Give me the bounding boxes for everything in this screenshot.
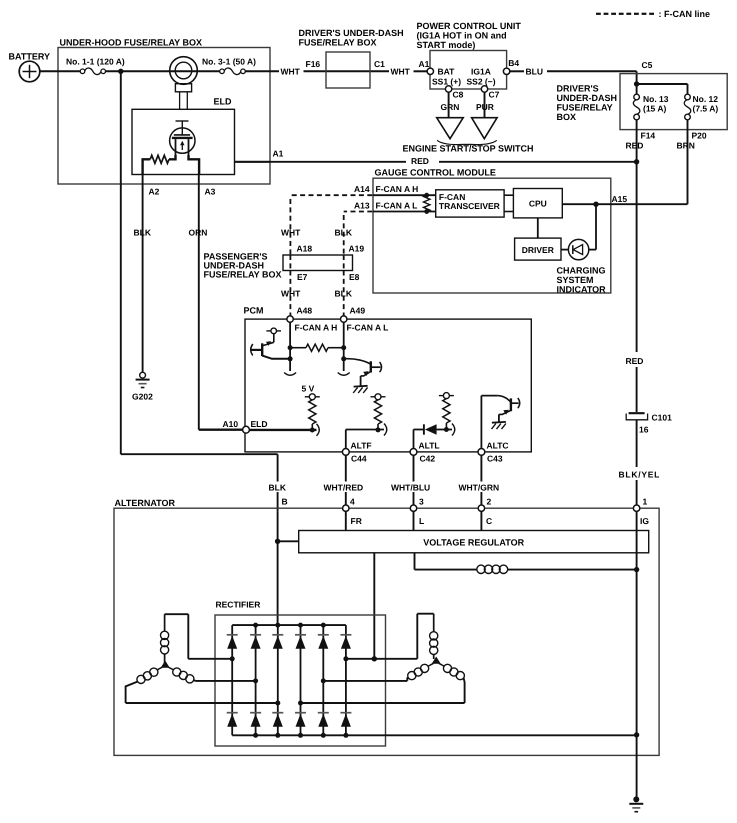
svg-text:BLK: BLK (335, 289, 353, 299)
svg-text:BOX: BOX (557, 112, 577, 122)
svg-text:SS1 (+): SS1 (+) (432, 77, 461, 87)
svg-text:UNDER-DASH: UNDER-DASH (557, 93, 618, 103)
svg-text:RED: RED (411, 156, 429, 166)
svg-text:C101: C101 (652, 413, 673, 423)
svg-text:BATTERY: BATTERY (9, 52, 51, 62)
svg-text:C5: C5 (642, 60, 653, 70)
svg-text:3: 3 (419, 497, 424, 507)
svg-text:16: 16 (639, 425, 649, 435)
svg-text:FUSE/RELAY BOX: FUSE/RELAY BOX (299, 38, 377, 48)
svg-text:SS2 (−): SS2 (−) (467, 77, 496, 87)
svg-text:A2: A2 (149, 187, 160, 197)
svg-text:RECTIFIER: RECTIFIER (216, 600, 261, 610)
svg-text:ALTF: ALTF (351, 441, 372, 451)
svg-text:IG: IG (640, 516, 649, 526)
svg-text:START mode): START mode) (417, 40, 476, 50)
svg-text:1: 1 (643, 497, 648, 507)
svg-text:No. 12: No. 12 (693, 94, 719, 104)
svg-text:DRIVER'S UNDER-DASH: DRIVER'S UNDER-DASH (299, 28, 404, 38)
svg-text:No. 13: No. 13 (643, 94, 669, 104)
svg-text:A3: A3 (205, 187, 216, 197)
svg-text:B: B (282, 497, 288, 507)
svg-text:No. 1-1 (120 A): No. 1-1 (120 A) (66, 57, 125, 67)
svg-text:F14: F14 (641, 131, 656, 141)
svg-text:RED: RED (626, 141, 644, 151)
svg-text:FUSE/RELAY: FUSE/RELAY (557, 103, 613, 113)
svg-text:BAT: BAT (438, 67, 456, 77)
svg-text:WHT: WHT (391, 67, 411, 77)
svg-text:A15: A15 (612, 194, 628, 204)
svg-text:DRIVER: DRIVER (522, 245, 554, 255)
svg-text:F-CAN A H: F-CAN A H (295, 323, 338, 333)
svg-text:A13: A13 (354, 200, 370, 210)
svg-text:A19: A19 (349, 244, 365, 254)
svg-text:E8: E8 (349, 272, 360, 282)
svg-text:BLK: BLK (269, 483, 287, 493)
svg-text:B4: B4 (508, 58, 519, 68)
svg-text:P20: P20 (692, 131, 707, 141)
svg-text:F-CAN A L: F-CAN A L (347, 323, 389, 333)
svg-text:F-CAN A H: F-CAN A H (376, 184, 419, 194)
svg-text:WHT: WHT (281, 67, 301, 77)
svg-text:WHT/GRN: WHT/GRN (459, 483, 500, 493)
svg-text:G202: G202 (132, 392, 153, 402)
svg-text:ELD: ELD (214, 97, 233, 107)
svg-text:BRN: BRN (677, 141, 695, 151)
svg-text:BLK: BLK (335, 228, 353, 238)
svg-text:FR: FR (351, 516, 362, 526)
svg-text:5 V: 5 V (302, 384, 315, 394)
svg-text:A48: A48 (297, 306, 313, 316)
svg-text:POWER CONTROL UNIT: POWER CONTROL UNIT (417, 21, 522, 31)
svg-text:C43: C43 (487, 454, 503, 464)
svg-text:ELD: ELD (251, 419, 268, 429)
svg-text:GAUGE CONTROL MODULE: GAUGE CONTROL MODULE (375, 168, 496, 178)
svg-text:E7: E7 (297, 272, 308, 282)
svg-text:WHT: WHT (281, 289, 301, 299)
svg-text:C8: C8 (453, 90, 464, 100)
svg-text:ORN: ORN (189, 228, 208, 238)
svg-text:: F-CAN line: : F-CAN line (659, 9, 711, 19)
svg-text:WHT/BLU: WHT/BLU (391, 483, 430, 493)
svg-text:A49: A49 (350, 306, 366, 316)
svg-text:WHT: WHT (281, 228, 301, 238)
svg-text:ALTERNATOR: ALTERNATOR (115, 498, 176, 508)
svg-text:C: C (486, 516, 492, 526)
svg-text:IG1A: IG1A (471, 67, 491, 77)
svg-text:F16: F16 (306, 59, 321, 69)
svg-text:No. 3-1 (50 A): No. 3-1 (50 A) (202, 57, 256, 67)
svg-text:A1: A1 (273, 149, 284, 159)
svg-text:A14: A14 (354, 184, 370, 194)
svg-text:A18: A18 (297, 244, 313, 254)
svg-text:PCM: PCM (244, 306, 264, 316)
svg-text:ALTC: ALTC (487, 441, 509, 451)
svg-text:ALTL: ALTL (419, 441, 440, 451)
svg-text:CHARGING: CHARGING (557, 266, 606, 276)
svg-text:C7: C7 (489, 90, 500, 100)
svg-text:INDICATOR: INDICATOR (557, 285, 607, 295)
svg-text:UNDER-HOOD FUSE/RELAY BOX: UNDER-HOOD FUSE/RELAY BOX (60, 38, 203, 48)
svg-text:A10: A10 (223, 419, 239, 429)
svg-text:VOLTAGE REGULATOR: VOLTAGE REGULATOR (423, 538, 524, 548)
svg-text:BLK: BLK (134, 228, 152, 238)
svg-text:(15 A): (15 A) (643, 104, 666, 114)
svg-text:SYSTEM: SYSTEM (557, 275, 594, 285)
svg-text:WHT/RED: WHT/RED (324, 483, 364, 493)
svg-text:TRANSCEIVER: TRANSCEIVER (439, 201, 500, 211)
svg-text:BLK/YEL: BLK/YEL (619, 470, 661, 480)
svg-text:FUSE/RELAY BOX: FUSE/RELAY BOX (204, 270, 282, 280)
svg-text:C42: C42 (420, 454, 436, 464)
svg-text:2: 2 (487, 497, 492, 507)
svg-text:F-CAN A L: F-CAN A L (376, 200, 418, 210)
svg-text:C1: C1 (374, 59, 385, 69)
svg-text:ENGINE START/STOP SWITCH: ENGINE START/STOP SWITCH (403, 144, 534, 154)
svg-text:CPU: CPU (529, 199, 547, 209)
svg-text:(7.5 A): (7.5 A) (693, 104, 719, 114)
svg-text:(IG1A HOT in ON and: (IG1A HOT in ON and (417, 31, 507, 41)
svg-text:C44: C44 (351, 454, 367, 464)
svg-text:BLU: BLU (526, 67, 543, 77)
svg-text:A1: A1 (419, 59, 430, 69)
svg-text:GRN: GRN (441, 102, 460, 112)
svg-text:RED: RED (626, 356, 644, 366)
svg-text:L: L (419, 516, 424, 526)
svg-text:DRIVER'S: DRIVER'S (557, 84, 599, 94)
svg-text:4: 4 (350, 497, 355, 507)
